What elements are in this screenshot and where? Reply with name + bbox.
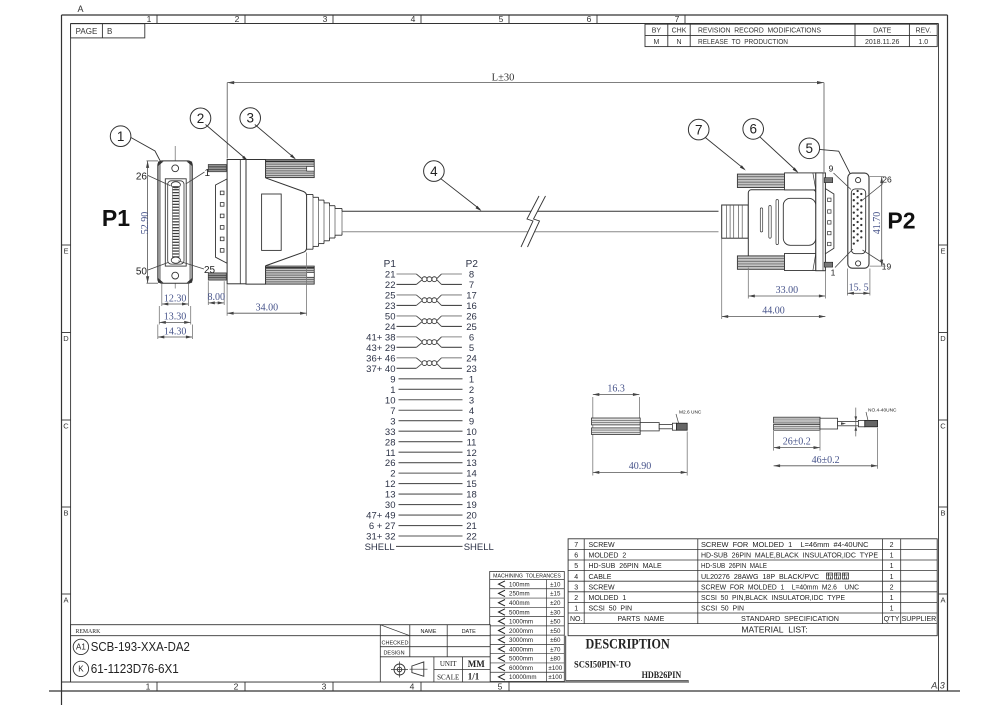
wire pin 7 to 4 (399, 409, 463, 411)
wire dimension 40.90 (593, 432, 687, 476)
svg-text:400mm: 400mm (509, 600, 530, 607)
svg-text:11: 11 (386, 448, 396, 459)
svg-text:CHECKED: CHECKED (382, 641, 409, 647)
wire dimension 33.00 (748, 268, 825, 299)
node balloon 6 callout (743, 119, 799, 173)
svg-text:6: 6 (587, 14, 592, 24)
wire pin 12 to 15 (399, 483, 463, 485)
node bottom zone numbers 1-5 (146, 682, 509, 692)
svg-text:26: 26 (466, 312, 477, 323)
svg-text:Q'TY: Q'TY (884, 616, 900, 623)
svg-text:P2: P2 (466, 259, 479, 270)
svg-text:50: 50 (385, 312, 396, 323)
svg-text:9: 9 (390, 374, 395, 385)
svg-text:B: B (940, 509, 945, 518)
svg-text:M: M (653, 39, 659, 46)
wire pin 1 to 2 (399, 388, 463, 390)
wire pin 13 to 18 (399, 493, 463, 495)
wire dimension 46±0.2 (774, 428, 878, 469)
svg-text:MACHINING TOLERANCES: MACHINING TOLERANCES (493, 574, 561, 580)
svg-text:SHELL: SHELL (464, 542, 494, 553)
screw detail 1 washer (672, 423, 676, 430)
svg-text:3: 3 (469, 395, 474, 406)
svg-text:7: 7 (695, 122, 703, 137)
node title block grid (71, 625, 491, 682)
svg-text:20: 20 (466, 511, 477, 522)
svg-text:22: 22 (466, 532, 477, 543)
svg-text:28: 28 (385, 437, 396, 448)
node P1 front 50 pins (172, 187, 179, 258)
screw detail 1 thread M2.6 (677, 423, 688, 430)
svg-text:±100: ±100 (548, 674, 562, 681)
wire dimension 12.30 (162, 284, 189, 307)
node balloon 4 callout (424, 161, 482, 211)
wire pin 6 + 27 to 21 (399, 525, 463, 527)
svg-text:SCSI 50 PIN: SCSI 50 PIN (701, 606, 744, 613)
svg-text:HDB26PIN: HDB26PIN (642, 671, 682, 681)
node description block border (566, 636, 689, 681)
svg-text:6000mm: 6000mm (509, 665, 533, 672)
svg-text:NAME: NAME (421, 629, 437, 635)
wire pin 33 to 10 (399, 430, 463, 432)
svg-text:2018.11.26: 2018.11.26 (865, 39, 900, 46)
svg-text:7: 7 (675, 14, 680, 24)
svg-text:±20: ±20 (550, 600, 561, 607)
svg-text:21: 21 (466, 521, 477, 532)
node parts row 1 SCSI 50 PIN (574, 606, 893, 613)
node part number A1 SCB-193-XXA-DA2 (73, 639, 190, 654)
svg-text:MOLDED 1: MOLDED 1 (589, 595, 627, 602)
svg-text:HD-SUB 26PIN MALE: HD-SUB 26PIN MALE (589, 563, 662, 570)
wire dimension L±30 overall length (227, 73, 824, 172)
svg-text:SCB-193-XXA-DA2: SCB-193-XXA-DA2 (91, 640, 190, 654)
svg-text:C: C (940, 422, 946, 431)
node label M2.6 UNC (676, 410, 702, 424)
node P1 jack screw nut top (208, 165, 226, 172)
wire pin 31+ 32 to 22 (399, 535, 463, 537)
svg-text:CHK: CHK (672, 28, 687, 35)
svg-text:25: 25 (385, 291, 396, 302)
svg-text:17: 17 (466, 291, 477, 302)
svg-text:15: 15 (466, 479, 477, 490)
wire pin 3 to 9 (399, 420, 463, 422)
wire pin 28 to 11 (399, 441, 463, 443)
svg-text:4: 4 (411, 14, 416, 24)
svg-text:C: C (63, 422, 69, 431)
svg-text:PARTS NAME: PARTS NAME (617, 616, 664, 623)
node P2 pin label 9 (829, 164, 851, 190)
wire twisted pair 36+ 46/37+ 40 to 24/23 (397, 358, 462, 368)
svg-text:25: 25 (466, 322, 477, 333)
svg-text:6: 6 (749, 122, 757, 137)
connector P1 front body (158, 161, 193, 283)
svg-text:REVISION RECORD MODIFICATION: REVISION RECORD MODIFICATIONS (698, 28, 821, 35)
wire pin 10 to 3 (399, 399, 463, 401)
svg-text:A: A (940, 596, 945, 605)
svg-text:M2.6 UNC: M2.6 UNC (679, 410, 702, 416)
svg-text:6: 6 (574, 553, 578, 560)
node unit scale cells (437, 659, 485, 682)
svg-text:34.00: 34.00 (256, 302, 279, 313)
node parts row 4 CABLE (574, 573, 893, 581)
wire pin 47+ 49 to 20 (399, 514, 463, 516)
svg-text:4000mm: 4000mm (509, 646, 533, 653)
svg-text:PAGE: PAGE (76, 27, 98, 36)
wire dimension 13.30 (159, 306, 190, 325)
svg-text:1000mm: 1000mm (509, 619, 533, 626)
svg-text:UNIT: UNIT (440, 660, 457, 668)
svg-text:4: 4 (574, 574, 578, 581)
svg-text:5: 5 (499, 14, 504, 24)
svg-text:8: 8 (469, 270, 474, 281)
svg-text:STANDARD SPECIFICATION: STANDARD SPECIFICATION (741, 616, 839, 623)
svg-text:21: 21 (385, 270, 396, 281)
screw detail 2 ribbed head (774, 417, 820, 430)
svg-text:±50: ±50 (550, 628, 561, 635)
svg-text:40.90: 40.90 (629, 461, 652, 472)
svg-text:10: 10 (466, 427, 477, 438)
svg-text:SCSI50PIN-TO: SCSI50PIN-TO (574, 661, 631, 671)
node cable break symbol (521, 196, 546, 247)
svg-text:B: B (63, 509, 68, 518)
svg-text:1: 1 (890, 574, 894, 581)
svg-text:1: 1 (146, 682, 151, 692)
svg-text:2: 2 (574, 595, 578, 602)
svg-text:13.30: 13.30 (164, 312, 187, 323)
connector P1 side D-shell (216, 179, 228, 263)
node P2 hood grip ribs (760, 200, 778, 245)
node P1 pin label 50 (136, 262, 169, 277)
svg-text:SCSI 50 PIN: SCSI 50 PIN (589, 606, 633, 613)
node machining tolerances table (490, 572, 565, 682)
wire dimension 26±0.2 (774, 430, 820, 451)
node pin map labels (365, 270, 494, 553)
node balloon 1 callout (110, 126, 168, 177)
svg-text:44.00: 44.00 (762, 305, 785, 316)
wire dimension 14.30 (158, 325, 193, 340)
node parts row 3 SCREW (574, 584, 893, 591)
svg-text:26: 26 (136, 172, 148, 183)
svg-text:1: 1 (469, 374, 474, 385)
svg-text:47+ 49: 47+ 49 (366, 511, 395, 522)
svg-text:SHELL: SHELL (365, 542, 395, 553)
svg-text:23: 23 (385, 301, 396, 312)
svg-text:SCALE: SCALE (437, 673, 459, 681)
connector P1 side face plate (227, 160, 246, 284)
svg-text:14: 14 (466, 469, 477, 480)
svg-text:16: 16 (466, 301, 477, 312)
svg-text:2: 2 (197, 111, 205, 126)
svg-text:37+ 40: 37+ 40 (366, 364, 395, 375)
svg-text:11: 11 (467, 437, 477, 448)
svg-text:REMARK: REMARK (76, 629, 102, 635)
wire dimension 8.00 (208, 281, 226, 305)
node parts row 5 HD-SUB 26PIN MALE (574, 563, 893, 570)
node top zone numbers 1-7 (147, 14, 685, 24)
svg-text:5: 5 (498, 682, 503, 692)
connector P2 side D-shell (825, 189, 834, 254)
svg-text:SUPPLIER: SUPPLIER (902, 616, 937, 623)
svg-text:DESCRIPTION: DESCRIPTION (586, 637, 671, 653)
wire pin 11 to 12 (399, 451, 463, 453)
svg-text:HD-SUB 26PIN MALE,BLACK INS: HD-SUB 26PIN MALE,BLACK INSULATOR,IDC TY… (701, 553, 878, 560)
svg-text:41+ 38: 41+ 38 (366, 332, 395, 343)
svg-text:10000mm: 10000mm (509, 674, 537, 681)
wire dimension 16.3 (593, 384, 640, 476)
svg-text:P1: P1 (384, 259, 397, 270)
connector P2 front body (848, 173, 869, 268)
svg-text:23: 23 (466, 364, 477, 375)
wire P1 front view centerline (174, 146, 176, 289)
node P2 screw tip bottom (824, 262, 833, 267)
svg-text:7: 7 (390, 406, 395, 417)
wire pin 26 to 13 (399, 462, 463, 464)
svg-text:7: 7 (469, 280, 474, 291)
svg-text:24: 24 (385, 322, 396, 333)
svg-text:3: 3 (574, 584, 578, 591)
svg-text:2: 2 (890, 584, 894, 591)
svg-text:1.0: 1.0 (918, 39, 928, 46)
svg-text:1: 1 (147, 14, 152, 24)
svg-text:SCREW: SCREW (589, 542, 615, 549)
svg-text:46±0.2: 46±0.2 (812, 455, 840, 466)
screw detail 1 ribbed head (592, 418, 641, 435)
node P1 pin label 25 (178, 261, 215, 276)
screw detail 1 thin shaft (659, 425, 672, 429)
wire pin 9 to 1 (399, 378, 463, 380)
svg-text:12: 12 (466, 448, 477, 459)
svg-text:250mm: 250mm (509, 591, 530, 598)
node balloon 3 callout (240, 108, 296, 160)
svg-text:100mm: 100mm (509, 581, 530, 588)
svg-text:26: 26 (385, 458, 396, 469)
svg-text:5: 5 (469, 343, 474, 354)
node balloon 7 callout (688, 119, 745, 170)
screw detail 2 thread #4-40 (865, 420, 878, 426)
svg-text:43+ 29: 43+ 29 (366, 343, 395, 354)
svg-text:K: K (78, 665, 84, 674)
svg-text:3: 3 (390, 416, 395, 427)
node P1 jack screw nut bottom (208, 273, 226, 280)
svg-text:DATE: DATE (462, 629, 477, 635)
svg-text:3: 3 (323, 14, 328, 24)
node balloon 5 callout (799, 138, 858, 188)
svg-text:30: 30 (385, 500, 396, 511)
svg-text:SCREW FOR MOLDED 1 L=40m: SCREW FOR MOLDED 1 L=40mm M2.6 UNC (701, 584, 859, 591)
node P1 mounting hole bottom (172, 272, 179, 279)
svg-text:3000mm: 3000mm (509, 637, 533, 644)
svg-text:24: 24 (466, 353, 477, 364)
node parts row 2 MOLDED 1 (574, 595, 893, 602)
svg-text:CABLE: CABLE (589, 574, 612, 581)
svg-text:18: 18 (466, 490, 477, 501)
svg-text:1: 1 (890, 595, 894, 602)
wire dimension 44.00 (722, 239, 826, 320)
svg-text:B: B (107, 27, 112, 36)
svg-text:26: 26 (882, 175, 892, 185)
node P1 pin label 26 (136, 172, 171, 186)
svg-text:16.3: 16.3 (607, 384, 625, 395)
svg-text:5: 5 (574, 563, 578, 570)
svg-text:2: 2 (234, 682, 239, 692)
wire dimension 34.00 (227, 253, 307, 316)
wire dimension 52.90 (140, 161, 158, 283)
svg-text:MATERIAL LIST:: MATERIAL LIST: (741, 626, 807, 635)
svg-text:2: 2 (890, 542, 894, 549)
svg-text:±100: ±100 (548, 665, 562, 672)
wire pin 30 to 19 (399, 504, 463, 506)
svg-text:3: 3 (246, 111, 254, 126)
node parts list table grid (568, 539, 937, 636)
svg-text:MM: MM (468, 659, 485, 669)
node parts row 6 MOLDED 2 (574, 553, 893, 560)
svg-text:2: 2 (469, 385, 474, 396)
svg-text:D: D (63, 334, 69, 343)
node P1 mounting hole top (172, 165, 179, 172)
node P2 cable boot (722, 205, 749, 238)
svg-text:12: 12 (385, 479, 396, 490)
svg-text:±60: ±60 (550, 637, 561, 644)
svg-text:SCREW: SCREW (589, 584, 615, 591)
svg-text:REV.: REV. (915, 28, 931, 35)
svg-text:1/1: 1/1 (468, 672, 480, 682)
svg-text:BY: BY (652, 28, 662, 35)
svg-text:1: 1 (890, 553, 894, 560)
svg-text:±10: ±10 (550, 581, 561, 588)
svg-text:A: A (77, 4, 83, 14)
svg-text:NO.4-40UNC: NO.4-40UNC (868, 408, 897, 414)
svg-text:41.70: 41.70 (872, 212, 883, 235)
wire dimension 41.70 (870, 177, 886, 267)
svg-text:15. 5: 15. 5 (849, 282, 869, 293)
node label NO.4-40UNC (866, 408, 897, 421)
node P2 pin label 19 (863, 250, 892, 272)
wire cable run (342, 211, 719, 232)
svg-text:SCSI 50 PIN,BLACK INSULATOR: SCSI 50 PIN,BLACK INSULATOR,IDC TYPE (701, 595, 845, 602)
svg-text:8.00: 8.00 (208, 292, 226, 303)
svg-text:2000mm: 2000mm (509, 628, 533, 635)
node P2 screw tip top (824, 178, 833, 183)
svg-text:2: 2 (235, 14, 240, 24)
svg-text:61-1123D76-6X1: 61-1123D76-6X1 (91, 662, 179, 676)
connector P1 front pin slot (165, 179, 186, 266)
svg-text:RELEASE TO PRODUCTION: RELEASE TO PRODUCTION (698, 39, 788, 46)
node parts table header row (570, 616, 936, 623)
svg-text:13: 13 (385, 490, 396, 501)
svg-text:9: 9 (469, 416, 474, 427)
svg-text:NO.: NO. (570, 616, 583, 623)
wire pin 2 to 14 (399, 472, 463, 474)
svg-text:1: 1 (890, 563, 894, 570)
svg-text:±50: ±50 (550, 619, 561, 626)
wire dimension 15.5 (847, 269, 870, 296)
connector P2 side face plate (816, 173, 826, 271)
svg-text:22: 22 (385, 280, 396, 291)
svg-text:5000mm: 5000mm (509, 656, 533, 663)
svg-text:D: D (940, 334, 946, 343)
svg-text:UL20276 28AWG 18P BLACK/PVC: UL20276 28AWG 18P BLACK/PVC (701, 574, 819, 581)
node P2 mounting hole bottom (856, 261, 861, 266)
svg-text:4: 4 (430, 164, 438, 179)
screw detail 2 shaft (820, 418, 838, 429)
svg-text:1: 1 (574, 606, 578, 613)
node P2 pin label 1 (831, 249, 853, 278)
screw detail 2 washer (858, 420, 864, 426)
svg-text:36+ 46: 36+ 46 (366, 353, 395, 364)
node revision record table (645, 24, 937, 46)
node balloon 2 callout (190, 108, 248, 161)
svg-text:±70: ±70 (550, 646, 561, 653)
svg-text:P2: P2 (887, 208, 915, 234)
node P1 thumbscrew ribs bottom (266, 266, 315, 284)
node P2 pin label 26 (862, 175, 892, 201)
svg-text:5: 5 (806, 141, 814, 156)
svg-text:6 + 27: 6 + 27 (369, 521, 396, 532)
svg-text:A: A (63, 596, 68, 605)
wire SHELL to SHELL (396, 545, 463, 547)
svg-text:52.90: 52.90 (140, 212, 151, 235)
svg-text:31+ 32: 31+ 32 (366, 532, 395, 543)
node rod diameter arrows (841, 408, 857, 437)
node P1 strain relief boot (307, 195, 342, 250)
svg-text:26±0.2: 26±0.2 (783, 437, 811, 448)
node checked design cells (382, 629, 477, 657)
node parts row 7 SCREW (574, 542, 893, 549)
svg-text:MOLDED 2: MOLDED 2 (589, 553, 627, 560)
svg-text:P1: P1 (102, 205, 130, 231)
svg-text:1: 1 (831, 268, 836, 278)
wire twisted pair 41+ 38/43+ 29 to 6/5 (397, 337, 462, 347)
node P2 front 26 pins (853, 190, 863, 245)
svg-text:33.00: 33.00 (776, 285, 799, 296)
wire twisted pair 25/23 to 17/16 (397, 295, 462, 305)
svg-text:7: 7 (574, 542, 578, 549)
wire twisted pair 21/22 to 8/7 (397, 274, 462, 284)
svg-text:4: 4 (410, 682, 415, 692)
svg-text:L±30: L±30 (492, 73, 515, 84)
connector P2 molded hood (748, 190, 816, 267)
node right zone letters E-A (939, 245, 948, 605)
node PAGE B box (71, 24, 145, 38)
node P2 mounting hole top (856, 178, 861, 183)
connector P2 front D-shell (851, 189, 865, 254)
node left zone letters E-A (62, 245, 71, 605)
svg-text:12.30: 12.30 (164, 293, 187, 304)
svg-text:3: 3 (322, 682, 327, 692)
node P2 thumbscrew bottom (737, 254, 815, 271)
svg-text:9: 9 (829, 164, 834, 174)
svg-text:N: N (676, 39, 681, 46)
node part number K 61-1123D76-6X1 (73, 661, 179, 676)
wire twisted pair 50/24 to 26/25 (397, 316, 462, 326)
screw detail 2 rod (838, 421, 859, 425)
svg-text:±15: ±15 (550, 591, 561, 598)
svg-text:1: 1 (117, 129, 125, 144)
screw detail 1 shaft (640, 423, 659, 431)
svg-text:E: E (940, 247, 945, 256)
svg-text:HD-SUB 26PIN MALE: HD-SUB 26PIN MALE (701, 563, 767, 570)
svg-text:A1: A1 (76, 643, 86, 652)
svg-text:19: 19 (466, 500, 477, 511)
svg-text:10: 10 (385, 395, 396, 406)
node projection symbol (391, 662, 428, 678)
svg-text:DESIGN: DESIGN (383, 651, 404, 657)
svg-text:E: E (63, 247, 68, 256)
node P2 thumbscrew top (737, 173, 815, 190)
svg-text:DATE: DATE (873, 28, 891, 35)
svg-text:±30: ±30 (550, 609, 561, 616)
connector P1 molded hood (246, 160, 307, 285)
